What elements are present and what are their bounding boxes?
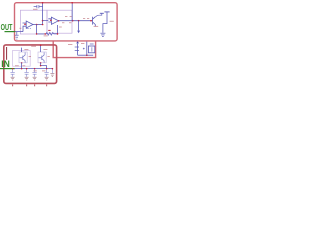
wire T2 emitter down [41,63,47,69]
text above T1 [24,48,28,50]
wire vertical to top rail [71,3,73,21]
capacitor column C3 [24,69,28,77]
svg-text:OUT: OUT [1,23,13,32]
text below bus 1 [33,70,36,72]
net text +V [110,20,114,22]
pin text row 3a [83,18,85,20]
wire top rail vertical [42,3,44,25]
resistor R1 [46,33,54,36]
pin text U1 left [19,27,21,29]
node bus T2 [40,65,42,67]
name text Q1 [94,25,99,27]
node at U1 input [24,24,26,26]
ground G2 [100,33,105,36]
wire U1 output [33,24,43,26]
text above bus 1 [15,65,19,67]
transistor T1 [19,52,25,62]
sub-sheet box C (bottom, purple) [13,51,31,67]
battery arrow up (tab) [76,41,79,43]
node rail mid [42,20,44,22]
wire IN (green net) [0,68,15,70]
wire from OUT into sheet [15,31,23,33]
wire T1 emitter down [21,63,23,69]
wire VCC2 down [103,12,107,33]
supply tee VCC2 [104,11,109,13]
text beside T1 [29,56,31,58]
node R1 junction [36,33,38,35]
frame tab (lower-right extension of top sheet) [53,41,95,58]
supply tee VCC1 [100,12,104,14]
pin text row 3b [87,18,89,20]
port line IN (dark red) [6,47,8,60]
node R1 left [44,33,46,35]
pin text row 2b [69,22,71,24]
frame tick marks under bottom border [13,84,47,86]
sub-sheet box A (top left, purple) [20,10,47,34]
name text IC1A [26,28,31,30]
wire feedback vertical [36,25,38,34]
node T2 [40,62,42,64]
ground G3 [50,74,54,77]
node tab [86,54,88,56]
node bus c [46,68,48,70]
value text C1 [33,8,38,10]
op-amp U2 [51,17,58,24]
power arrow down [77,21,80,34]
frame IN (bottom sheet border) [4,45,57,84]
wire R1 to U2 [54,25,58,34]
transistor box T2 [38,52,46,63]
capacitor column C2 [10,69,14,77]
text beside T2 [47,56,49,58]
node bus 1 [72,20,74,22]
node U2 input [50,20,52,22]
ground C4 [33,77,37,80]
value text R1 [48,29,50,31]
wire battery vertical [77,44,79,56]
battery plates [75,47,79,51]
op-amp U1 [26,21,33,28]
wire T2 top [40,45,42,52]
node bus 3 [90,20,92,22]
node bus 2 [78,20,80,22]
wire to resistor R1 [37,33,46,35]
ground at input [15,32,19,39]
text above bus 2 [22,65,25,67]
wire Q1 collector to VCC1 [95,14,101,17]
battery BT1 bar [91,47,93,51]
wire tab bottom [78,54,94,56]
node T2 top [40,44,42,46]
capacitor C1 (top) [34,5,43,8]
node bus b [34,68,36,70]
transistor T2 [38,52,44,62]
node T1 [21,62,23,64]
node C3 [26,68,28,70]
pin text row 2a [62,22,64,24]
node U1 out [36,24,38,26]
battery BT1 box [88,46,94,53]
ground C3 [25,77,29,80]
node R1 right [57,33,59,35]
frame OUT (top sheet border) [15,3,118,41]
wire output bus [59,20,93,22]
node G3 [52,68,54,70]
wire IN bus (blue) [15,68,53,70]
node U2 output [58,20,60,22]
node C2 [12,68,14,70]
text BT1 [90,43,94,45]
ground C2 [11,77,15,80]
plus mark [83,48,85,50]
pin text row 1a [65,15,67,17]
node rail bottom [42,24,44,26]
node bus a [21,68,23,70]
text tab label [68,43,72,45]
svg-text:IN: IN [1,59,10,69]
transistor box T1 [19,52,27,63]
transistor Q1 [93,17,96,27]
text below bus 2 [42,70,45,72]
capacitor column C5 [44,69,48,77]
text right of T2 [43,48,47,50]
text tab mid [81,43,84,45]
wire OUT (green net) [5,31,16,33]
name text IC1B [59,26,62,28]
node top rail right [71,2,73,4]
sub-sheet box B (top middle, purple) [47,10,72,33]
ground C5 [45,77,49,80]
node rail top [42,2,44,4]
text above T2 [31,45,36,47]
value text R1b [44,35,48,37]
capacitor column C4 [32,69,36,77]
wire T1 top [21,48,23,52]
wire to op-amp U1 input [23,23,27,32]
wire ground right [51,69,53,73]
wire tab vertical [86,42,88,56]
pin text row 1b [70,15,72,17]
wire to op-amp U2 [43,19,52,22]
